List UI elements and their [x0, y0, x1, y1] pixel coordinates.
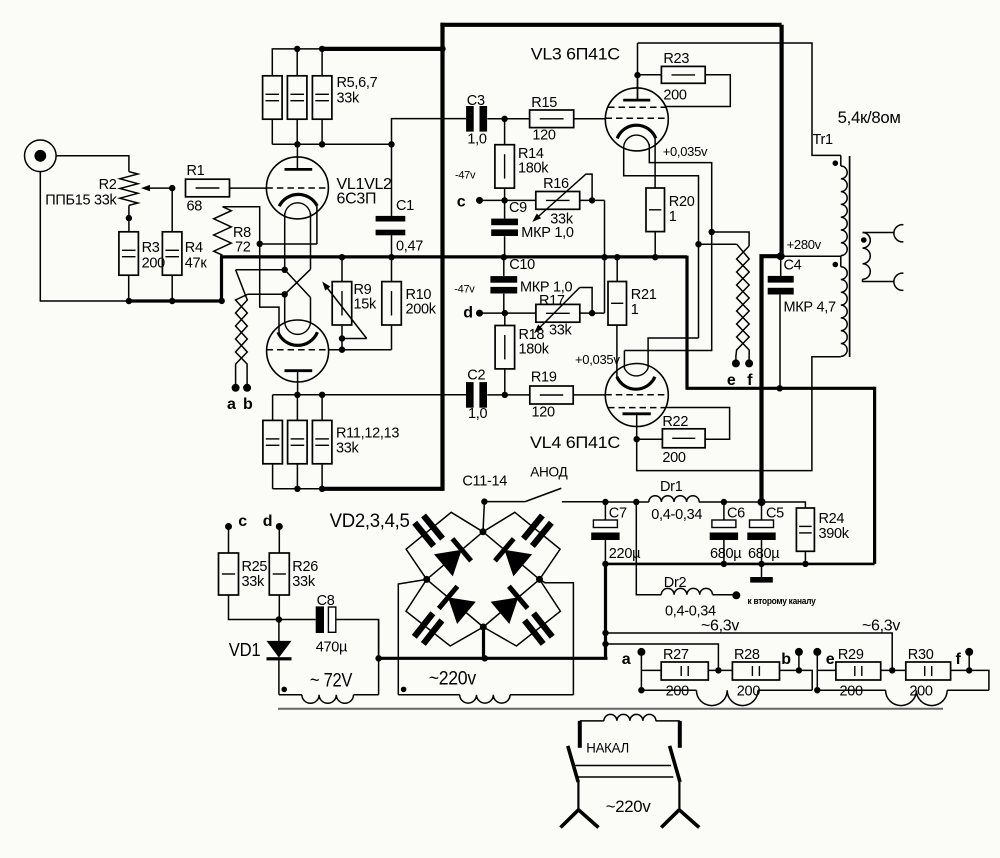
node bus corner — [219, 298, 225, 304]
filter ground rail — [605, 563, 874, 566]
wire bridge left to winding — [398, 579, 426, 694]
wire C1 bottom — [391, 235, 393, 257]
diode VD2 (upper-left) — [434, 550, 462, 577]
capacitor C12 — [521, 513, 554, 548]
capacitor C10 — [490, 257, 572, 296]
node bridge right — [536, 576, 543, 583]
svg-text:R28: R28 — [734, 647, 760, 663]
node rail R6 — [294, 46, 300, 52]
capacitor C14 — [522, 611, 555, 646]
transformer Tr1 primary — [841, 155, 847, 356]
capacitor C8 — [316, 593, 348, 656]
node bridge top — [480, 528, 487, 535]
wire C4 top — [780, 256, 782, 276]
svg-text:68: 68 — [187, 199, 203, 215]
capacitor C11 — [412, 513, 445, 547]
node 6.3v tap 2 — [602, 641, 608, 647]
node C7 ground — [602, 561, 608, 567]
svg-text:C2: C2 — [467, 368, 485, 384]
ground bus bottom — [379, 657, 608, 660]
svg-text:+0,035v: +0,035v — [663, 144, 708, 159]
node C6 top — [721, 499, 727, 505]
choke Dr1 — [649, 479, 703, 523]
svg-text:R3: R3 — [142, 240, 160, 256]
capacitor C3 — [466, 93, 487, 148]
bridge side lower-left — [427, 579, 484, 627]
wire R16 right — [580, 199, 605, 201]
wire b stub — [798, 652, 800, 671]
svg-text:d: d — [263, 513, 272, 530]
diode VD4 (lower-left) — [448, 597, 476, 624]
diode VD1 — [229, 620, 292, 695]
B+ corner to C5 — [762, 254, 784, 502]
svg-text:200: 200 — [663, 88, 687, 104]
wire bridge right to winding — [540, 579, 574, 694]
thick vertical to heater bus — [604, 564, 607, 658]
ground thick right vertical 687 — [685, 256, 688, 389]
wire R5,6,7 bottom rail — [272, 119, 391, 145]
wire VL3 heater right — [624, 144, 711, 351]
node cathode tie — [257, 241, 263, 247]
svg-text:R1: R1 — [187, 163, 205, 179]
phase dot primary top — [833, 160, 839, 166]
svg-text:6С3П: 6С3П — [337, 191, 377, 208]
svg-text:R15: R15 — [531, 95, 557, 111]
svg-text:VL3 6П41С: VL3 6П41С — [531, 45, 620, 64]
wire jack to R2 top — [56, 156, 129, 172]
wire R24 top — [762, 502, 806, 508]
svg-text:a: a — [622, 651, 631, 668]
capacitor C9 — [491, 200, 574, 241]
svg-text:470µ: 470µ — [316, 640, 348, 656]
wire R23 to screen grid — [665, 75, 730, 107]
svg-text:АНОД: АНОД — [530, 464, 568, 479]
node Dr2 tap — [633, 499, 639, 505]
node R9 grid — [339, 347, 345, 353]
node bridge ground — [482, 655, 488, 661]
tube VL4 — [605, 364, 668, 440]
wire VL2 anode rail — [273, 395, 467, 421]
svg-text:R5,6,7: R5,6,7 — [337, 75, 378, 91]
wire R28 to b — [780, 670, 813, 690]
node B+ rail R13 — [319, 486, 325, 492]
capacitor C6 — [710, 506, 745, 563]
wire bridge top to switch — [483, 502, 484, 532]
node R27 R28 — [715, 667, 721, 673]
wire R4 top — [171, 188, 173, 232]
wire C4 to ground — [779, 295, 781, 389]
node R16 ground — [601, 254, 607, 260]
wire +280v to OPT center tap — [781, 255, 841, 257]
resistor R26 — [269, 553, 318, 595]
svg-text:180k: 180k — [518, 161, 549, 177]
wire C1 top — [391, 144, 393, 216]
node rail R7 — [319, 46, 325, 52]
node e winding — [814, 687, 820, 693]
phase dot 220v — [401, 687, 407, 693]
svg-text:~ 72V: ~ 72V — [310, 671, 353, 692]
capacitor C2 — [466, 368, 487, 423]
terminal f — [745, 359, 753, 389]
node A — [282, 267, 288, 273]
svg-text:d: d — [463, 305, 472, 322]
node R17 right — [589, 310, 595, 316]
svg-text:0,47: 0,47 — [396, 239, 423, 255]
node R21 ground — [614, 254, 620, 260]
wire tap to twisted pair f — [699, 243, 737, 245]
terminal e lower — [813, 648, 834, 668]
wire secondary bottom terminal — [863, 279, 894, 281]
trimmer R17 — [534, 288, 592, 339]
resistor R15 — [530, 95, 574, 144]
wire R22 left — [637, 438, 663, 440]
node C7 top — [602, 499, 608, 505]
svg-text:72: 72 — [235, 240, 251, 256]
wire R21 to VL4 cathode — [616, 325, 618, 377]
input jack — [25, 140, 57, 172]
wire R4 to ground bus — [171, 275, 173, 301]
node bridge left — [423, 576, 430, 583]
phase dot secondary — [861, 237, 867, 243]
svg-text:c: c — [457, 194, 466, 211]
phase dot primary mid — [833, 262, 839, 268]
svg-text:к второму каналу: к второму каналу — [748, 596, 817, 607]
svg-text:200: 200 — [666, 684, 690, 700]
terminal c — [457, 194, 483, 211]
svg-text:VD1: VD1 — [229, 640, 261, 660]
svg-text:33k: 33k — [336, 441, 360, 457]
transformer core — [849, 156, 851, 357]
svg-text:VD2,3,4,5: VD2,3,4,5 — [330, 511, 410, 532]
wire heater leg B — [248, 213, 311, 323]
wire d stub — [278, 527, 280, 554]
capacitor C4 — [768, 258, 836, 316]
wire R30 to f — [951, 670, 989, 690]
svg-text:НАКАЛ: НАКАЛ — [586, 739, 629, 755]
svg-text:R27: R27 — [663, 647, 689, 663]
svg-text:МКР 1,0: МКР 1,0 — [521, 225, 574, 241]
switch ANOD — [484, 464, 568, 501]
diode VD5 (lower-right) — [491, 597, 519, 624]
svg-text:-47v: -47v — [454, 284, 475, 296]
svg-text:R29: R29 — [838, 647, 864, 663]
node anode rail 2 — [319, 141, 325, 147]
node anode rail R13 — [319, 392, 325, 398]
diode VD3 (upper-right) — [504, 550, 532, 577]
wire 6.3v to R27 R28 junction — [606, 644, 719, 670]
svg-text:R24: R24 — [819, 511, 845, 527]
svg-text:c: c — [238, 513, 247, 530]
svg-text:VL4 6П41С: VL4 6П41С — [530, 433, 620, 452]
resistors R11,R12,R13 33k — [263, 420, 399, 463]
svg-text:МКР 4,7: МКР 4,7 — [784, 300, 837, 316]
node C3 R14 — [501, 116, 507, 122]
terminal c upper — [225, 513, 247, 530]
node R9 wiper — [339, 335, 345, 341]
trimmer R16 — [532, 174, 592, 227]
wire c stub — [228, 527, 230, 554]
wire VL3 heater left — [624, 146, 699, 338]
B+ thick top rail — [440, 23, 781, 27]
node c junction — [501, 197, 507, 203]
svg-text:C4: C4 — [784, 258, 802, 274]
transformer Tr1 secondary — [863, 233, 871, 280]
wire R25 R26 bottoms — [229, 595, 316, 620]
wire C11 detour — [406, 512, 483, 579]
wire R18 top — [504, 313, 506, 325]
capacitor C13 — [412, 611, 445, 646]
svg-text:390k: 390k — [819, 526, 850, 542]
plug blade left — [568, 746, 578, 782]
wire f stub — [968, 652, 970, 671]
wire e to R29 — [817, 669, 836, 671]
wire d to R18 — [480, 312, 505, 314]
resistor R21 — [608, 282, 657, 326]
svg-text:33k: 33k — [292, 574, 316, 590]
ground bar below C5 — [750, 564, 773, 583]
svg-text:~220v: ~220v — [429, 668, 477, 689]
resistor R24 — [796, 508, 849, 551]
svg-text:R11,12,13: R11,12,13 — [336, 426, 399, 442]
node R16 right — [589, 197, 595, 203]
svg-text:~6,3v: ~6,3v — [701, 618, 739, 635]
node C5 ground — [758, 561, 764, 567]
node VD1 top — [276, 616, 282, 622]
B+ thick vertical right — [779, 25, 783, 256]
node +280v — [777, 252, 785, 260]
ground bus bottom left — [128, 299, 222, 302]
node R2 bottom — [126, 215, 132, 221]
wire R11,12,13 bottom — [273, 464, 323, 489]
wire C6 leads — [723, 502, 725, 564]
wire heater leg A — [236, 213, 311, 323]
resistors R5,R6,R7 33k — [263, 75, 378, 119]
wire C9 bottom — [504, 236, 506, 257]
ground thick horizontal 388 — [686, 387, 875, 390]
twisted pair to terminals e f — [736, 244, 749, 363]
wire R2 to R3 — [128, 205, 130, 231]
svg-text:ППБ15 33k: ППБ15 33k — [45, 193, 117, 209]
plug fork right — [661, 780, 699, 828]
ground thick vertical 874 — [873, 387, 876, 564]
label VL1VL2 6C3P — [337, 176, 393, 208]
terminal d upper — [263, 513, 283, 530]
wire R17 left — [505, 312, 536, 314]
node C9 ground — [501, 254, 507, 260]
svg-text:R19: R19 — [531, 370, 557, 386]
wire C5 leads — [761, 502, 763, 564]
svg-text:1,0: 1,0 — [468, 406, 487, 422]
resistor R27 — [661, 647, 708, 700]
node R10 bus — [388, 254, 394, 260]
svg-text:1: 1 — [631, 302, 639, 318]
wire R15 to VL3 grid — [574, 118, 606, 120]
potentiometer R2 — [45, 172, 172, 209]
node switch contact — [481, 498, 487, 504]
resistor R1 — [186, 163, 230, 215]
node heater e tap — [709, 229, 715, 235]
node heater f tap — [695, 241, 701, 247]
wire bridge bottom to bus — [482, 627, 485, 658]
wire C3 left — [392, 119, 467, 145]
resistor R29 — [836, 647, 881, 700]
svg-text:R21: R21 — [631, 287, 657, 303]
phase dot 72V — [281, 687, 287, 693]
plug blade right — [670, 746, 680, 782]
bridge side upper-right — [483, 532, 540, 580]
plug crossbar 2 — [576, 776, 673, 778]
B+ thick vertical left — [440, 23, 444, 491]
wire rail to B+ (thick) — [322, 47, 442, 51]
svg-text:R4: R4 — [185, 240, 203, 256]
svg-text:15k: 15k — [354, 297, 378, 313]
node R3 ground — [126, 298, 132, 304]
svg-text:680µ: 680µ — [748, 546, 780, 562]
resistor R30 — [906, 647, 951, 700]
svg-text:+280v: +280v — [787, 237, 822, 252]
wire VL4 anode to OPT — [637, 357, 841, 471]
node bridge bottom — [480, 624, 487, 631]
svg-text:a: a — [227, 396, 236, 413]
svg-text:180k: 180k — [519, 342, 550, 358]
wire C2 right — [487, 394, 530, 396]
terminal f lower — [955, 648, 973, 668]
wire R5,6,7 top rail — [272, 49, 322, 76]
wire e stub — [816, 652, 818, 690]
wire +280 rail — [605, 501, 761, 503]
choke Dr2 — [636, 502, 736, 620]
svg-text:b: b — [781, 651, 791, 668]
winding 6,3v left — [641, 690, 812, 705]
terminal to second channel — [732, 591, 816, 607]
node d junction — [502, 310, 508, 316]
wire R19 to VL4 grid — [573, 394, 605, 396]
wire R23 anode node — [638, 43, 662, 99]
wire R27 R28 junction — [708, 669, 732, 671]
svg-text:~6,3v: ~6,3v — [862, 618, 900, 635]
svg-text:C1: C1 — [396, 198, 414, 214]
node C8 ground bus — [375, 655, 381, 661]
wire C7 leads — [604, 502, 606, 564]
primary winding NAKAL — [580, 714, 680, 755]
svg-text:Dr2: Dr2 — [664, 575, 687, 591]
resistor R18 — [495, 326, 550, 369]
node anode rail C3 — [388, 141, 394, 147]
svg-text:e: e — [727, 372, 736, 389]
wire B+ rail thick to vertical — [322, 487, 442, 491]
svg-text:33k: 33k — [242, 574, 266, 590]
node 6.3v tap 1 — [602, 630, 608, 636]
svg-text:b: b — [243, 396, 253, 413]
wire R22 to screen grid — [666, 408, 730, 440]
resistor R9 (trimmer) — [322, 282, 377, 339]
node B+ R5,6,7 — [439, 46, 445, 52]
wire a stub — [640, 652, 642, 690]
node anode rail 1 — [294, 141, 300, 147]
capacitor C7 — [591, 506, 641, 563]
svg-text:33k: 33k — [549, 323, 573, 339]
svg-text:R26: R26 — [292, 559, 318, 575]
output horn bottom — [894, 273, 904, 290]
svg-text:C11-14: C11-14 — [462, 474, 507, 490]
svg-text:200: 200 — [840, 684, 864, 700]
svg-text:200: 200 — [662, 450, 686, 466]
node R20 ground — [652, 254, 658, 260]
svg-text:C7: C7 — [609, 506, 627, 522]
node R1 left — [169, 185, 175, 191]
svg-text:C9: C9 — [509, 200, 527, 216]
svg-text:C10: C10 — [509, 257, 535, 273]
node b junction — [796, 667, 802, 673]
terminal e — [727, 359, 740, 389]
wire jack sleeve to ground bus — [40, 172, 129, 301]
terminal a lower — [622, 648, 646, 668]
resistor R22 — [662, 414, 705, 466]
wire C3 to R15 — [487, 118, 529, 120]
wire a to R27 — [641, 669, 661, 671]
plug fork left — [561, 780, 599, 828]
node R29 R30 — [889, 667, 895, 673]
bridge side lower-right — [483, 579, 539, 627]
svg-text:5,4к/8ом: 5,4к/8ом — [838, 108, 901, 127]
svg-text:~220v: ~220v — [606, 797, 651, 816]
wire R24 bottom — [804, 551, 806, 564]
svg-text:33k: 33k — [337, 91, 361, 107]
resistor R25 — [219, 553, 268, 595]
wire R17 right — [580, 312, 605, 314]
terminal b lower — [781, 648, 803, 668]
node R18 bottom — [502, 392, 508, 398]
svg-text:680µ: 680µ — [710, 546, 742, 562]
wire C10 top — [503, 257, 505, 276]
ground bus corner up — [220, 257, 223, 303]
node C5 top (B+) — [758, 498, 766, 506]
svg-text:R17: R17 — [539, 293, 565, 309]
resistor R23 — [661, 51, 705, 104]
ground bus main — [220, 255, 687, 258]
wire C9 top — [504, 200, 506, 218]
wire C12 detour — [483, 512, 560, 579]
svg-text:C6: C6 — [727, 506, 745, 522]
node R9 bus — [339, 254, 345, 260]
resistor R14 — [495, 145, 549, 188]
wire C10 bottom — [503, 294, 505, 313]
wire R18 bottom — [504, 369, 506, 395]
node B — [282, 291, 288, 297]
wire secondary top terminal — [863, 232, 894, 234]
plug pin right — [678, 721, 682, 748]
wire R9 bottom — [341, 326, 343, 350]
plug crossbar 1 — [574, 765, 671, 767]
output horn top — [894, 225, 904, 242]
svg-text:0,4-0,34: 0,4-0,34 — [651, 507, 702, 523]
svg-text:1,0: 1,0 — [467, 132, 486, 148]
terminal a — [227, 384, 240, 413]
tube VL1 (half of 6C3P) — [266, 144, 328, 219]
capacitor C5 — [747, 506, 784, 563]
wire R8 top to VL2 cathode — [223, 207, 280, 332]
wire R29 R30 junction — [881, 669, 906, 671]
wire R16 to ground bus — [604, 200, 606, 313]
svg-text:R20: R20 — [669, 194, 695, 210]
node R23 anode — [634, 72, 640, 78]
plug pin left — [578, 721, 582, 748]
svg-text:47к: 47к — [185, 256, 208, 272]
resistor R10 — [382, 282, 437, 325]
node f junction — [966, 667, 972, 673]
svg-text:1: 1 — [669, 209, 677, 225]
wire R10 top — [391, 257, 393, 281]
